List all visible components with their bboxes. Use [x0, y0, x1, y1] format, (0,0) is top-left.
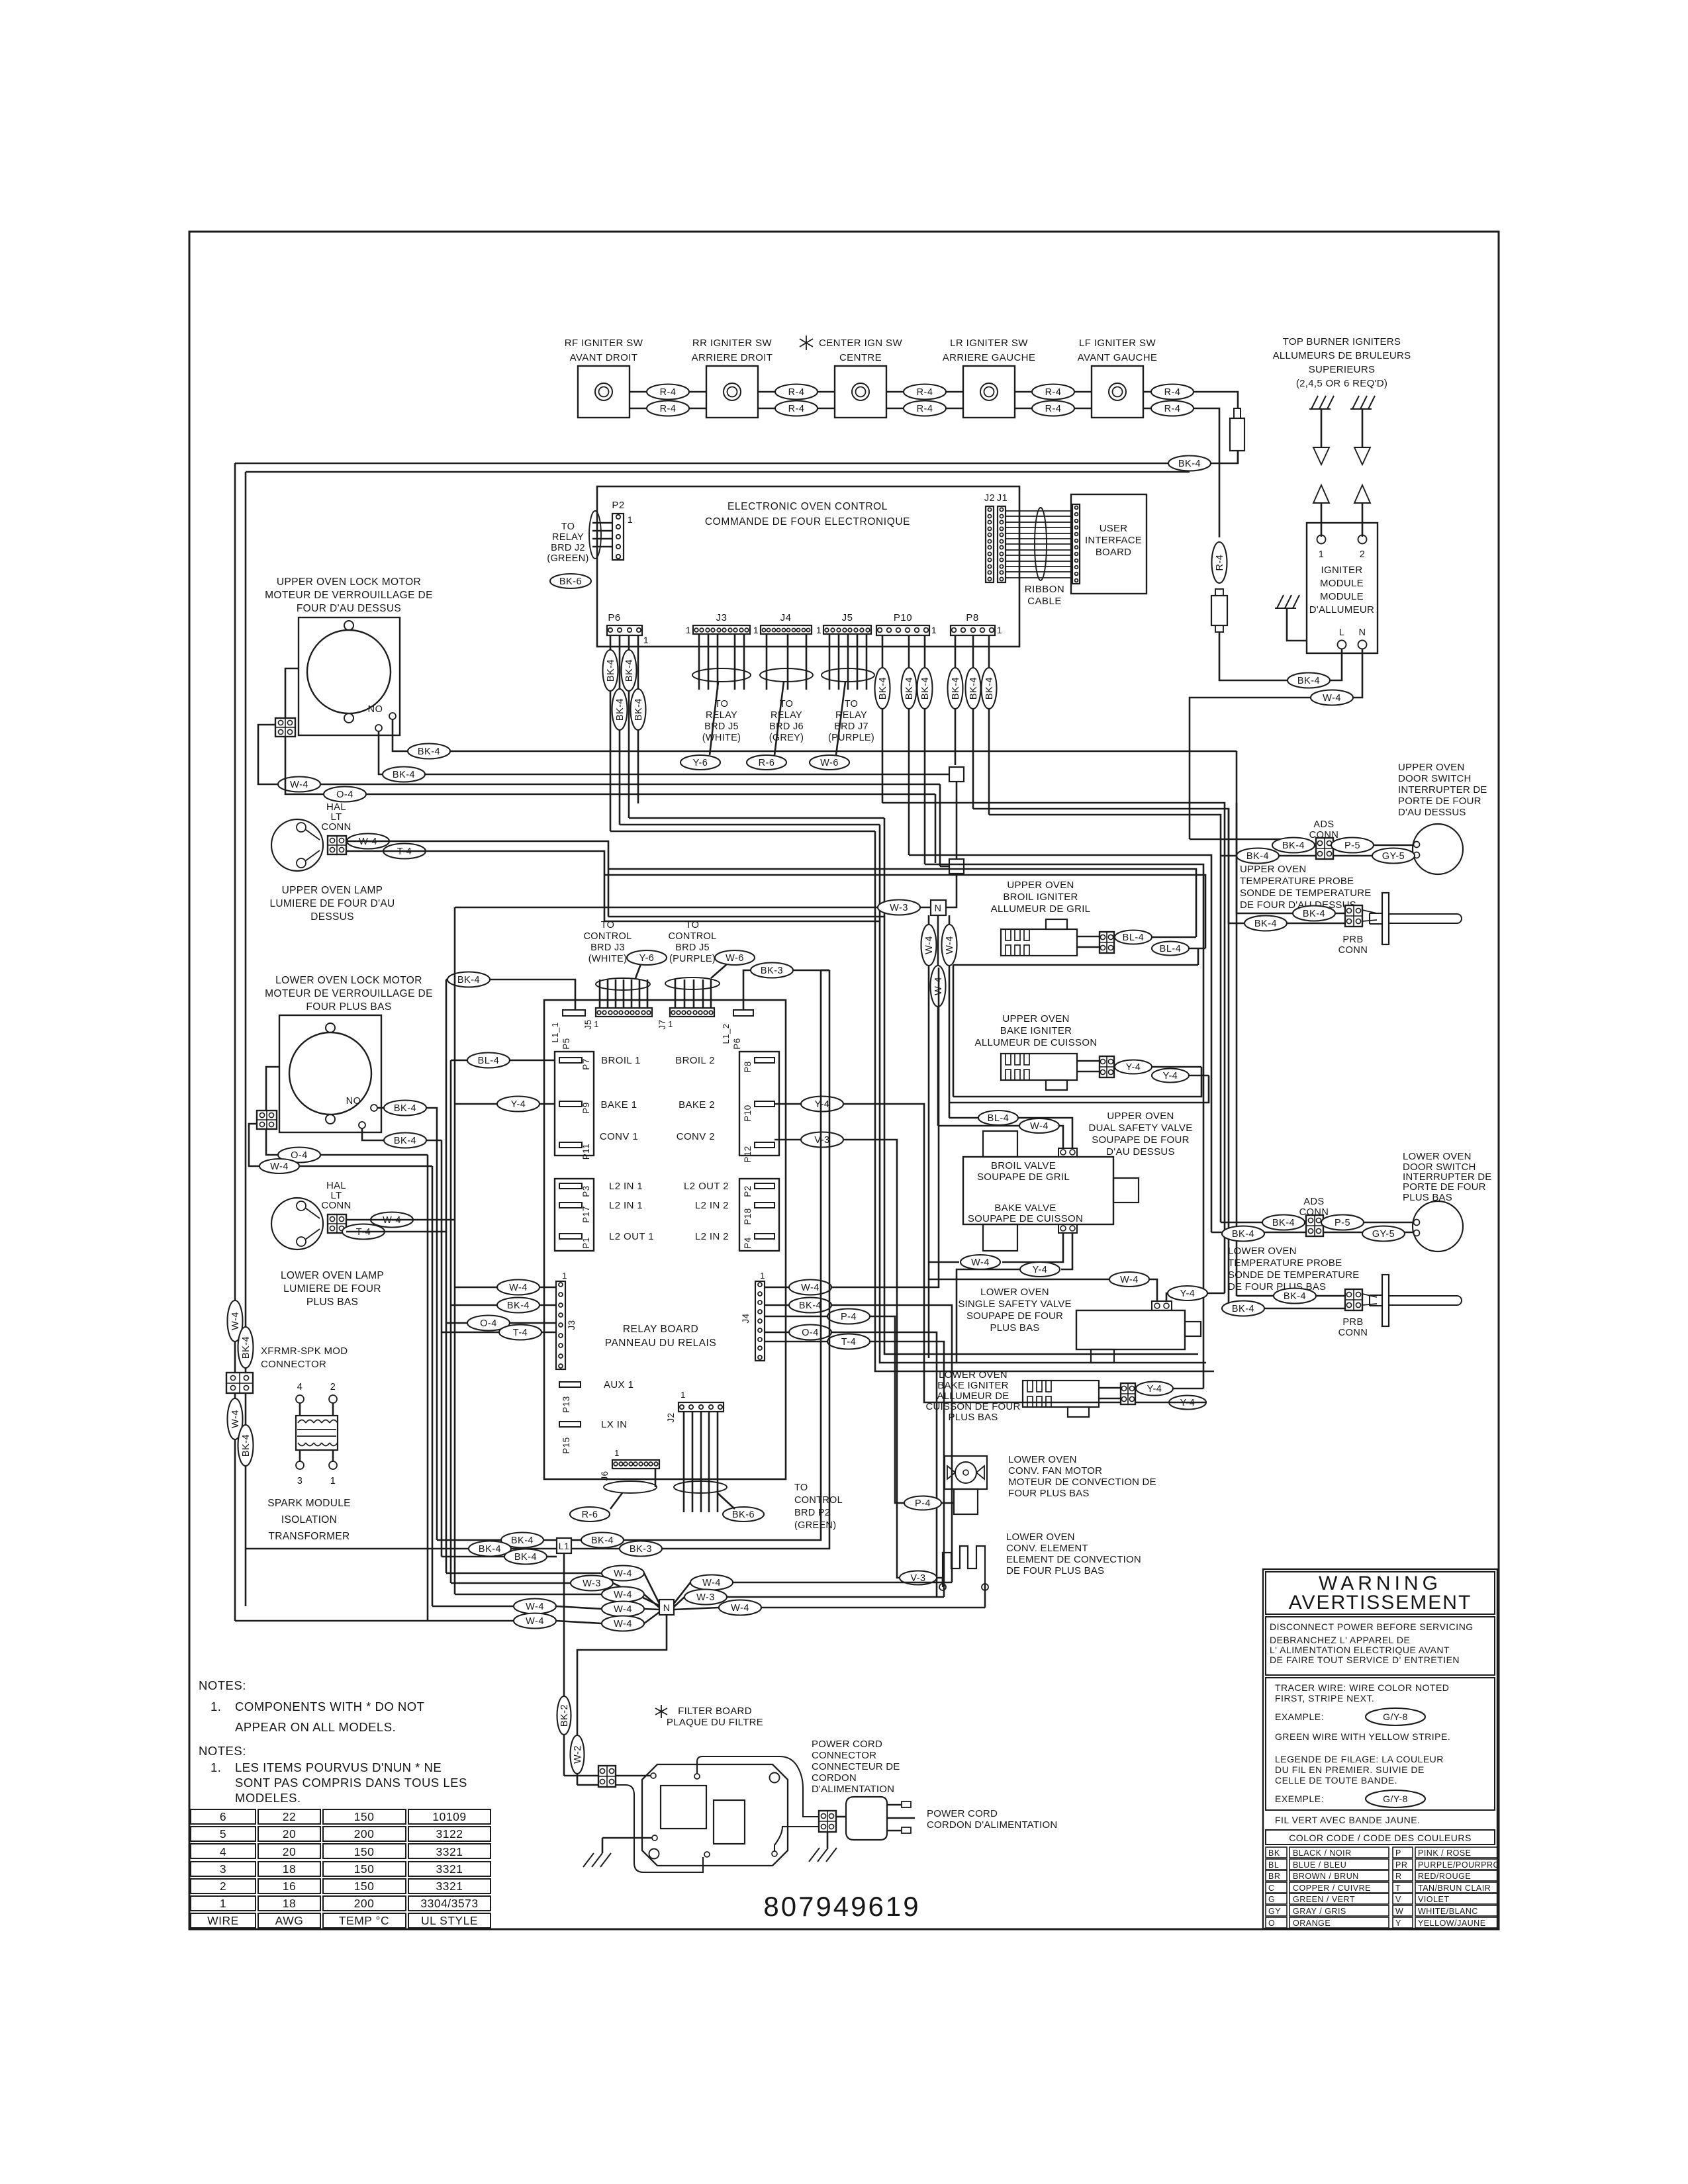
svg-text:150: 150: [354, 1845, 375, 1858]
wire bus y1236 from P6: [629, 817, 884, 819]
wire BL-4 from P7 to left bundle: [510, 1060, 555, 1062]
wire band2 y1231: [989, 815, 1221, 1222]
svg-text:MODULE: MODULE: [1320, 578, 1364, 589]
label W-4: [278, 777, 320, 792]
wire to lower door switch a: [1221, 1222, 1306, 1224]
wire gauge table: [191, 1809, 256, 1824]
svg-text:YELLOW/JAUNE: YELLOW/JAUNE: [1418, 1919, 1486, 1928]
svg-text:FIRST, STRIPE NEXT.: FIRST, STRIPE NEXT.: [1275, 1693, 1374, 1704]
label P-5: [1331, 838, 1374, 853]
svg-text:O-4: O-4: [480, 1318, 497, 1329]
fuse component F1: [1234, 408, 1241, 418]
svg-text:R-4: R-4: [1045, 387, 1062, 398]
svg-text:P: P: [1395, 1848, 1401, 1858]
warning text english: [1266, 1617, 1495, 1675]
wires from P10 down: [882, 635, 884, 803]
junction node J-A: [949, 767, 964, 782]
svg-text:LOWER OVEN LOCK MOTOR: LOWER OVEN LOCK MOTOR: [275, 975, 422, 986]
svg-text:G/Y-8: G/Y-8: [1383, 1711, 1408, 1722]
svg-text:ISOLATION: ISOLATION: [281, 1514, 337, 1525]
vertical R-4 label on igniter feed: [1212, 542, 1227, 583]
svg-text:DOOR SWITCH: DOOR SWITCH: [1398, 773, 1472, 784]
svg-text:W-4: W-4: [230, 1410, 241, 1428]
wire valve bottom W-4: [1002, 1233, 1063, 1262]
svg-text:CABLE: CABLE: [1027, 596, 1062, 607]
svg-text:GY-5: GY-5: [1372, 1229, 1395, 1240]
wire to lower door switch b: [1211, 1232, 1306, 1234]
svg-text:UL STYLE: UL STYLE: [421, 1914, 478, 1927]
wire to lower probe b: [1229, 1308, 1345, 1310]
svg-text:P11: P11: [581, 1144, 591, 1160]
svg-text:BRD J2: BRD J2: [551, 543, 585, 553]
wire lower lock W-4: [249, 1124, 259, 1166]
wire valve top BL-4: [1018, 1118, 1072, 1148]
svg-text:RELAY: RELAY: [706, 710, 737, 721]
svg-text:W-4: W-4: [731, 1603, 749, 1614]
svg-text:T: T: [1395, 1884, 1401, 1893]
svg-text:1: 1: [562, 1271, 567, 1281]
svg-text:T-4: T-4: [513, 1328, 528, 1338]
label BK-4: [1222, 1226, 1264, 1242]
wire band3 y1292: [909, 855, 1211, 1232]
svg-text:UPPER OVEN: UPPER OVEN: [1240, 864, 1306, 875]
svg-text:L2 IN 2: L2 IN 2: [695, 1200, 729, 1211]
wire from igniter module N pin: [1190, 649, 1362, 839]
svg-text:PLUS BAS: PLUS BAS: [990, 1322, 1040, 1334]
wire Y-4 from P10 right long: [774, 1103, 801, 1105]
svg-text:PANNEAU DU RELAIS: PANNEAU DU RELAIS: [605, 1338, 716, 1349]
svg-text:D'ALLUMEUR: D'ALLUMEUR: [1309, 604, 1374, 615]
svg-text:W-4: W-4: [230, 1312, 241, 1330]
label Y-4: [1169, 1396, 1206, 1410]
label W-4: [602, 1616, 644, 1631]
svg-text:BROIL IGNITER: BROIL IGNITER: [1003, 891, 1078, 903]
label W-3: [684, 1590, 727, 1605]
svg-text:(PURPLE): (PURPLE): [828, 733, 874, 743]
svg-text:RELAY: RELAY: [771, 710, 802, 721]
label W-4: [789, 1280, 831, 1295]
wire W-3 into N node: [455, 907, 931, 909]
label BK-4: [1293, 906, 1335, 921]
wire lower bake igniter Y-4 a: [1173, 1388, 1203, 1390]
svg-text:1: 1: [931, 625, 937, 635]
svg-text:3304/3573: 3304/3573: [420, 1897, 478, 1910]
connector group P7 P9 P11: [555, 1052, 594, 1156]
svg-text:BK-4: BK-4: [394, 1136, 416, 1146]
wires from J4 down to cable: [766, 634, 768, 690]
svg-text:TRACER WIRE: WIRE COLOR NOT: TRACER WIRE: WIRE COLOR NOTED: [1275, 1682, 1449, 1693]
svg-text:FOUR PLUS BAS: FOUR PLUS BAS: [306, 1001, 391, 1013]
wire L1 right BK-4: [571, 1539, 581, 1541]
svg-text:POWER CORD: POWER CORD: [812, 1739, 882, 1750]
svg-text:BK-4: BK-4: [615, 698, 626, 721]
wire upper lock motor BK-4 a: [393, 719, 408, 751]
asterisk for center ign sw: [806, 336, 807, 350]
svg-text:SOUPAPE DE CUISSON: SOUPAPE DE CUISSON: [968, 1213, 1083, 1224]
svg-text:W-4: W-4: [924, 936, 935, 954]
wire arrow up 2: [1354, 485, 1370, 503]
svg-text:PRB: PRB: [1342, 1317, 1363, 1328]
connector group P8 P10 P12: [739, 1052, 779, 1156]
PRB connector lower: [1345, 1289, 1362, 1310]
ADS connector upper: [1316, 838, 1333, 859]
wire left vertical 1: [234, 463, 236, 1621]
wire upper lock motor O-4: [285, 737, 324, 794]
label O-4: [324, 787, 366, 802]
wire upper lock motor W-4: [285, 668, 299, 718]
svg-text:ALLUMEURS DE BRULEURS: ALLUMEURS DE BRULEURS: [1273, 350, 1411, 361]
svg-text:BROIL VALVE: BROIL VALVE: [991, 1160, 1056, 1171]
svg-text:PLUS BAS: PLUS BAS: [949, 1412, 998, 1423]
svg-text:P8: P8: [966, 612, 978, 623]
lower oven temperature probe: [1362, 1294, 1377, 1297]
svg-text:BAKE 2: BAKE 2: [679, 1099, 715, 1111]
svg-text:P6: P6: [732, 1038, 742, 1050]
svg-text:LOWER OVEN: LOWER OVEN: [939, 1369, 1008, 1381]
svg-text:TAN/BRUN CLAIR: TAN/BRUN CLAIR: [1418, 1884, 1491, 1893]
svg-text:DISCONNECT POWER BEFORE SERVIC: DISCONNECT POWER BEFORE SERVICING: [1270, 1621, 1474, 1632]
svg-text:W: W: [1395, 1907, 1403, 1916]
wire N right W-4 long: [674, 1608, 719, 1610]
svg-text:BK-4: BK-4: [457, 975, 480, 985]
svg-text:NOTES:: NOTES:: [199, 1744, 246, 1758]
wire valve top W-4: [1059, 1126, 1063, 1148]
svg-text:P5: P5: [561, 1038, 571, 1050]
svg-text:LUMIERE DE FOUR D'AU: LUMIERE DE FOUR D'AU: [270, 898, 395, 909]
label BK-4: [1237, 848, 1279, 864]
svg-text:J3: J3: [716, 612, 727, 623]
svg-text:PR: PR: [1395, 1860, 1407, 1870]
svg-text:G/Y-8: G/Y-8: [1383, 1794, 1408, 1804]
svg-text:SUPERIEURS: SUPERIEURS: [1309, 364, 1376, 375]
svg-text:COMMANDE DE FOUR ELECTRONIQUE: COMMANDE DE FOUR ELECTRONIQUE: [705, 516, 910, 527]
svg-text:VIOLET: VIOLET: [1418, 1895, 1449, 1904]
svg-text:BK-4: BK-4: [984, 677, 995, 700]
label W-4: [347, 834, 389, 849]
svg-text:MODULE: MODULE: [1320, 591, 1364, 602]
wire from LF igniter switch to fuse: [1143, 392, 1238, 408]
label BK-4 vertical: [902, 668, 917, 709]
svg-text:CELLE DE TOUTE BANDE.: CELLE DE TOUTE BANDE.: [1275, 1775, 1397, 1786]
svg-text:UPPER OVEN LAMP: UPPER OVEN LAMP: [282, 885, 383, 896]
lower oven lamp L2: [271, 1198, 323, 1250]
wire N right W-3: [674, 1597, 684, 1607]
upper oven bake igniter: [1001, 1054, 1077, 1080]
wire broil igniter BL-4 a: [1152, 936, 1196, 938]
wire N feed 3: [455, 1594, 602, 1596]
svg-text:FOUR D'AU DESSUS: FOUR D'AU DESSUS: [297, 603, 401, 614]
svg-text:PLUS BAS: PLUS BAS: [306, 1297, 358, 1308]
wire filter board jumper to power cord connector: [697, 1756, 819, 1817]
svg-text:LOWER OVEN: LOWER OVEN: [980, 1287, 1049, 1298]
svg-text:R-4: R-4: [788, 404, 805, 414]
label W-4: [497, 1280, 539, 1295]
label BK-4: [1222, 1301, 1264, 1316]
svg-text:3321: 3321: [436, 1845, 463, 1858]
svg-text:BAKE 1: BAKE 1: [601, 1099, 637, 1111]
svg-text:O: O: [1268, 1919, 1275, 1928]
svg-text:L' ALIMENTATION ELECTRIQUE A: L' ALIMENTATION ELECTRIQUE AVANT: [1270, 1645, 1450, 1655]
svg-text:P-5: P-5: [1344, 841, 1360, 851]
svg-text:GREEN WIRE WITH YELLOW STRIPE.: GREEN WIRE WITH YELLOW STRIPE.: [1275, 1731, 1450, 1742]
svg-text:NO: NO: [368, 704, 383, 715]
lower oven conv fan motor M3: [945, 1456, 987, 1489]
svg-text:AVANT GAUCHE: AVANT GAUCHE: [1078, 352, 1158, 363]
svg-text:UPPER OVEN: UPPER OVEN: [1398, 762, 1464, 773]
svg-text:W-4: W-4: [702, 1578, 721, 1588]
svg-text:GY: GY: [1268, 1907, 1281, 1916]
label R-4: [1032, 401, 1074, 416]
svg-text:W-4: W-4: [290, 780, 308, 790]
svg-text:BK-4: BK-4: [1232, 1229, 1254, 1240]
label T-4: [383, 844, 426, 859]
label W-6: [810, 755, 849, 770]
label BK-4: [1288, 673, 1330, 688]
svg-text:BK-4: BK-4: [624, 659, 635, 682]
svg-text:CONNECTOR: CONNECTOR: [261, 1359, 326, 1370]
svg-text:Y-4: Y-4: [815, 1099, 830, 1110]
label BK-4: [581, 1533, 624, 1548]
svg-text:PRB: PRB: [1342, 934, 1363, 945]
label BK-4: [789, 1298, 831, 1313]
wires from P8 down: [955, 635, 957, 765]
svg-text:20: 20: [283, 1845, 296, 1858]
svg-text:LOWER OVEN: LOWER OVEN: [1006, 1531, 1075, 1543]
svg-text:W-4: W-4: [614, 1590, 632, 1600]
svg-text:22: 22: [283, 1810, 296, 1823]
svg-text:ORANGE: ORANGE: [1293, 1919, 1331, 1928]
svg-text:DE FOUR PLUS BAS: DE FOUR PLUS BAS: [1006, 1565, 1104, 1576]
lower oven bake igniter: [1023, 1381, 1099, 1407]
svg-text:INTERRUPTER DE: INTERRUPTER DE: [1398, 784, 1487, 796]
connector J2 of relay board: [679, 1402, 724, 1412]
svg-text:BR: BR: [1268, 1872, 1280, 1881]
label BK-6: [550, 574, 591, 588]
wire filter board ground: [602, 1837, 652, 1839]
svg-text:R-6: R-6: [582, 1510, 598, 1520]
wire single valve W-4: [929, 1279, 1109, 1281]
svg-text:TO: TO: [561, 522, 575, 532]
svg-text:1: 1: [628, 514, 633, 525]
svg-text:CONTROL: CONTROL: [669, 931, 717, 942]
label W-4: [602, 1566, 644, 1581]
igniter module ground lug: [1277, 595, 1284, 608]
svg-text:TO: TO: [845, 699, 858, 709]
svg-text:TO: TO: [794, 1482, 808, 1493]
wire band3 y1306: [925, 864, 1203, 1388]
wire L1 left a: [437, 1539, 501, 1541]
relay board: [544, 1000, 786, 1479]
svg-text:RELAY: RELAY: [552, 532, 584, 543]
svg-text:L2 OUT 1: L2 OUT 1: [609, 1231, 654, 1242]
wire left vertical 2: [245, 472, 247, 1606]
label W-4: [1019, 1118, 1059, 1133]
svg-text:BROIL 2: BROIL 2: [675, 1055, 715, 1066]
svg-text:L2 OUT 2: L2 OUT 2: [684, 1181, 729, 1192]
label BK-4: [383, 767, 425, 782]
svg-text:BK-4: BK-4: [1178, 459, 1201, 469]
label Y-4: [1168, 1286, 1207, 1300]
svg-text:D'AU DESSUS: D'AU DESSUS: [1398, 807, 1466, 818]
svg-text:BK-4: BK-4: [920, 677, 931, 700]
svg-text:ARRIERE GAUCHE: ARRIERE GAUCHE: [943, 352, 1036, 363]
wire arrow down 2: [1362, 409, 1364, 447]
svg-text:PINK / ROSE: PINK / ROSE: [1418, 1848, 1472, 1858]
svg-text:BK-4: BK-4: [606, 659, 616, 682]
wire bus y1200: [366, 794, 935, 796]
svg-text:BL-4: BL-4: [1123, 933, 1145, 943]
svg-text:1: 1: [753, 625, 759, 635]
igniter module pin 2: [1358, 535, 1367, 544]
label BK-4 vertical: [603, 650, 618, 691]
svg-text:1: 1: [997, 625, 1002, 635]
svg-text:ADS: ADS: [1313, 819, 1334, 830]
svg-text:BL-4: BL-4: [478, 1056, 500, 1066]
ribbon cable: [1006, 510, 1072, 512]
svg-text:LF IGNITER SW: LF IGNITER SW: [1079, 338, 1156, 349]
svg-text:BK-4: BK-4: [1246, 851, 1269, 862]
wire BK-4 from relay P5 to left bundle: [490, 979, 575, 1010]
svg-text:P12: P12: [743, 1146, 753, 1163]
wire band2 y1222: [973, 809, 1229, 1308]
svg-text:DUAL SAFETY VALVE: DUAL SAFETY VALVE: [1088, 1122, 1192, 1134]
svg-text:CONV 2: CONV 2: [677, 1131, 715, 1142]
label BK-4: [384, 1101, 426, 1116]
filter board label: [661, 1705, 662, 1718]
svg-text:R-4: R-4: [917, 387, 933, 398]
svg-text:BAKE IGNITER: BAKE IGNITER: [937, 1380, 1008, 1391]
svg-text:UPPER OVEN: UPPER OVEN: [1107, 1111, 1174, 1122]
svg-text:J4: J4: [780, 612, 792, 623]
label BK-4: [501, 1533, 543, 1548]
svg-text:18: 18: [283, 1862, 296, 1876]
wire bake igniter Y-4 b: [1189, 1075, 1209, 1077]
svg-text:L2 IN 2: L2 IN 2: [695, 1231, 729, 1242]
svg-text:2: 2: [220, 1880, 226, 1893]
svg-text:P10: P10: [743, 1105, 753, 1122]
igniter switch SW1 (RF IGNITER SW): [578, 366, 630, 418]
svg-text:CONN: CONN: [321, 1200, 351, 1211]
wire bus y1256 from P6: [610, 831, 875, 833]
wires from J5 of relay board up to cable: [599, 979, 601, 1008]
label Y-6: [680, 755, 720, 770]
svg-text:DESSUS: DESSUS: [310, 911, 354, 923]
wire L1 left b (long from border): [246, 1548, 469, 1550]
svg-text:P6: P6: [608, 612, 620, 623]
svg-text:R-4: R-4: [917, 404, 933, 414]
svg-text:PORTE DE FOUR: PORTE DE FOUR: [1403, 1181, 1486, 1193]
lower oven lock motor M2: [279, 1015, 381, 1132]
label GY-5: [1362, 1226, 1405, 1242]
wire L1 right BK-3: [571, 1548, 620, 1550]
svg-text:USER: USER: [1100, 523, 1127, 534]
wire lower lock O-4: [266, 1129, 278, 1155]
svg-text:ALLUMEUR DE: ALLUMEUR DE: [937, 1390, 1009, 1402]
label BK-4 vertical left 2: [238, 1425, 254, 1466]
svg-text:CONV. ELEMENT: CONV. ELEMENT: [1006, 1543, 1088, 1554]
svg-text:P15: P15: [561, 1437, 571, 1454]
svg-text:J5: J5: [583, 1019, 593, 1029]
svg-text:W-4: W-4: [945, 936, 955, 954]
lower oven conv element R1: [943, 1546, 985, 1587]
svg-text:BROIL 1: BROIL 1: [601, 1055, 641, 1066]
wire N right W-4: [674, 1582, 690, 1604]
node N lower: [659, 1600, 674, 1615]
wires from J3 down to cable: [698, 634, 700, 690]
wires from P2 to relay brd J2 cable: [592, 522, 612, 524]
svg-text:1: 1: [220, 1897, 226, 1910]
svg-text:BK-3: BK-3: [630, 1544, 652, 1555]
svg-text:1: 1: [594, 1019, 599, 1029]
svg-text:P13: P13: [561, 1396, 571, 1413]
junction node J-B: [949, 859, 964, 874]
label W-4: [514, 1614, 556, 1629]
svg-text:R-4: R-4: [1164, 404, 1181, 414]
wire bus y1246 from P6: [620, 824, 880, 826]
svg-text:SINGLE SAFETY VALVE: SINGLE SAFETY VALVE: [958, 1298, 1071, 1310]
wire vertical to lower probe: [1236, 751, 1238, 1296]
label R-4: [904, 385, 946, 400]
svg-text:BK-4: BK-4: [799, 1300, 821, 1311]
wire band2 y1213: [882, 803, 1225, 1293]
label P-4: [827, 1309, 870, 1324]
svg-text:FILTER BOARD: FILTER BOARD: [678, 1706, 752, 1717]
connector J3 of relay board: [556, 1281, 565, 1369]
page border: [189, 232, 1499, 1929]
label BK-4 vertical: [966, 668, 981, 709]
svg-text:CENTRE: CENTRE: [839, 352, 882, 363]
svg-text:BK-4: BK-4: [418, 747, 440, 757]
label W-2 vertical: [571, 1735, 585, 1774]
wire lower lamp T-4: [346, 1231, 446, 1233]
svg-text:BAKE IGNITER: BAKE IGNITER: [1000, 1025, 1072, 1036]
igniter switch SW5 (LF IGNITER SW): [1092, 366, 1143, 418]
svg-text:W-4: W-4: [614, 1604, 632, 1615]
wire from J6 of relay board down to cable: [655, 1469, 657, 1487]
svg-text:Y-4: Y-4: [1163, 1071, 1178, 1081]
lower oven door switch S2: [1413, 1201, 1463, 1251]
label R-6: [747, 755, 786, 770]
svg-text:CONN: CONN: [1338, 945, 1368, 956]
svg-text:BK-4: BK-4: [878, 677, 888, 700]
svg-text:FOUR PLUS BAS: FOUR PLUS BAS: [1008, 1488, 1090, 1499]
label Y-4: [1115, 1060, 1152, 1074]
svg-text:3122: 3122: [436, 1827, 463, 1841]
svg-text:C: C: [1268, 1884, 1275, 1893]
svg-text:P2: P2: [743, 1185, 753, 1197]
wires from J2 of relay board down to cable: [683, 1412, 685, 1512]
svg-text:O-4: O-4: [802, 1328, 819, 1338]
label R-4: [1151, 401, 1194, 416]
svg-text:CORDON D'ALIMENTATION: CORDON D'ALIMENTATION: [927, 1819, 1057, 1831]
svg-text:CONN: CONN: [1338, 1328, 1368, 1338]
label BK-2 vertical: [557, 1696, 571, 1735]
label BK-4: [469, 1541, 511, 1557]
svg-text:J4: J4: [741, 1313, 751, 1323]
svg-text:BK-4: BK-4: [1303, 909, 1325, 919]
svg-text:P9: P9: [581, 1102, 591, 1114]
wire BK-3 from relay P6 up: [743, 970, 751, 1010]
svg-text:J5: J5: [842, 612, 853, 623]
wire to lower probe a: [1237, 1295, 1345, 1297]
svg-text:MOTEUR DE VERROUILLAGE DE: MOTEUR DE VERROUILLAGE DE: [265, 590, 433, 601]
svg-text:TRANSFORMER: TRANSFORMER: [269, 1531, 350, 1542]
svg-text:BK-4: BK-4: [507, 1300, 530, 1311]
svg-text:W-3: W-3: [890, 903, 908, 913]
wire verticals left of band: [608, 869, 610, 917]
svg-text:L1: L1: [559, 1541, 570, 1551]
svg-text:W-4: W-4: [1323, 693, 1341, 704]
